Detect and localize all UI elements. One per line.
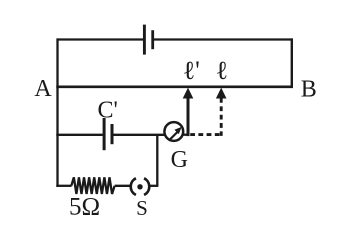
svg-text:5Ω: 5Ω xyxy=(69,194,100,221)
wire top-left segment xyxy=(58,38,144,40)
capacitor C' (right short plate) xyxy=(111,124,114,144)
resistor 5Ω zigzag xyxy=(71,177,114,194)
wire bottom-left segment xyxy=(56,185,71,187)
svg-text:G: G xyxy=(171,147,188,173)
wire junction vertical (C' branch to bottom branch) xyxy=(156,135,158,186)
wire C' branch right xyxy=(113,134,166,136)
svg-text:ℓ: ℓ xyxy=(216,56,228,85)
svg-text:C': C' xyxy=(98,98,118,124)
svg-text:A: A xyxy=(34,76,52,102)
svg-text:B: B xyxy=(301,76,317,102)
capacitor C' (left long plate) xyxy=(103,118,106,150)
wire left vertical (top wire down to bottom branch) xyxy=(56,38,58,187)
galvanometer G xyxy=(164,122,183,141)
wire right vertical xyxy=(291,38,293,88)
battery cell (short plate) xyxy=(151,30,154,49)
key (switch) S: circle with gaps xyxy=(131,178,150,195)
svg-text:ℓ': ℓ' xyxy=(183,56,200,85)
dashed wire to alternate position xyxy=(220,98,223,136)
svg-text:S: S xyxy=(136,196,148,220)
wire link galvanometer to jockey xyxy=(183,134,190,136)
wire C' branch left xyxy=(56,134,102,136)
jockey arrow at position ℓ' (solid) xyxy=(183,88,194,137)
potentiometer wire A-B xyxy=(56,85,293,88)
battery cell (long plate) xyxy=(143,25,146,55)
jockey arrow at position ℓ (dashed) arrowhead xyxy=(216,88,227,99)
wire key to junction vertical xyxy=(149,185,158,187)
wire resistor to key xyxy=(115,185,131,187)
wire top-right segment xyxy=(154,38,293,40)
